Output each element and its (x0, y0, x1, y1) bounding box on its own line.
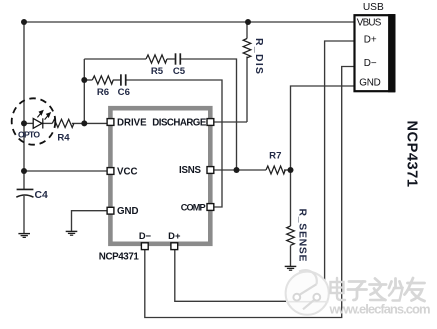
svg-text:D+: D+ (168, 230, 181, 241)
node R6 branch (81, 77, 87, 83)
wire VBUS top rail (24, 21, 354, 23)
wire R5C5 branch left (84, 58, 146, 60)
wire R6C6 branch left (84, 79, 92, 81)
svg-text:OPTO: OPTO (18, 130, 40, 140)
svg-text:D−: D− (364, 58, 377, 69)
node R7 R_SENSE junction (288, 167, 294, 173)
wire IC D- to USB D- (145, 67, 354, 318)
LED OPTO diode (33, 118, 43, 128)
node LED anode (21, 120, 27, 126)
pin ISNS (207, 167, 214, 174)
wire R6 to C6 (113, 79, 120, 81)
wire USB GND net (291, 86, 354, 170)
resistor R6 (92, 76, 113, 84)
svg-text:R6: R6 (97, 87, 109, 98)
svg-text:ISNS: ISNS (179, 165, 202, 176)
wire VCC row (24, 170, 107, 172)
USB right bar (388, 14, 395, 92)
pin VCC (107, 168, 114, 175)
capacitor C6 (121, 74, 126, 85)
svg-text:C6: C6 (118, 87, 130, 98)
pin DRIVE (107, 119, 114, 126)
svg-text:NCP4371: NCP4371 (404, 120, 420, 187)
svg-text:GND: GND (359, 78, 381, 89)
svg-text:R_SENSE: R_SENSE (297, 209, 308, 262)
resistor R7 (266, 166, 285, 174)
wire C4 to ground (23, 196, 25, 233)
wire IC D+ to USB D+ (175, 41, 354, 301)
wire ISNS to R7 (214, 169, 266, 171)
node top-left corner (21, 19, 27, 25)
capacitor C4 (16, 189, 33, 197)
wire left vertical rail (23, 22, 25, 189)
ground G1 (C4) (18, 234, 30, 238)
svg-text:GND: GND (117, 206, 139, 217)
svg-text:R_DIS: R_DIS (253, 38, 264, 74)
resistor R5 (146, 55, 167, 63)
svg-text:D−: D− (139, 230, 152, 241)
svg-text:NCP4371: NCP4371 (99, 252, 140, 263)
node R_DIS top (245, 19, 251, 25)
pin GND (107, 207, 114, 214)
wire feedback vertical x84 (83, 59, 85, 123)
resistor R_DIS (243, 39, 251, 58)
svg-text:D+: D+ (364, 35, 377, 46)
LED arrows (37, 111, 50, 120)
ground G3 (R_SENSE) (285, 266, 297, 270)
wire R5 to C5 (167, 58, 175, 60)
wire C5 to ISNS drop (181, 59, 237, 170)
pin D+ (171, 243, 178, 250)
svg-text:C4: C4 (35, 190, 49, 201)
pin COMP (207, 204, 214, 211)
wire R4 to DRIVE pin (72, 122, 107, 124)
wire LED cathode to R4 (43, 122, 53, 124)
node C5 to ISNS (234, 167, 240, 173)
svg-text:R4: R4 (57, 133, 70, 144)
node DRIVE / feedback (81, 120, 87, 126)
svg-text:VCC: VCC (117, 166, 137, 177)
svg-text:VBUS: VBUS (357, 17, 382, 28)
wire GND pin to ground (72, 211, 108, 231)
wire R_DIS top (246, 22, 248, 39)
opto dashed ellipse (12, 98, 56, 144)
resistor R4 (52, 119, 74, 127)
node VCC branch (21, 168, 27, 174)
wire LED anode (24, 122, 33, 124)
wire C6 to COMP (126, 80, 222, 207)
USB connector J1 (355, 15, 395, 91)
resistor R_SENSE (287, 226, 295, 245)
svg-text:R7: R7 (269, 151, 281, 162)
svg-text:DISCHARGE: DISCHARGE (152, 118, 207, 129)
wire R_SENSE to ground (290, 246, 292, 267)
svg-text:C5: C5 (173, 66, 186, 77)
capacitor C5 (176, 53, 181, 64)
watermark logo circle (286, 270, 329, 315)
wire R7 to sense node (284, 169, 291, 171)
svg-text:USB: USB (363, 2, 384, 13)
svg-text:R5: R5 (151, 66, 164, 77)
wire R_DIS bottom (246, 57, 248, 123)
wire sense node to R_SENSE (290, 170, 292, 226)
watermark text 电子发烧友 (331, 278, 425, 301)
svg-text:www.elecfans.com: www.elecfans.com (329, 302, 431, 317)
op IC U1 NCP4371 body (110, 108, 210, 244)
pin DISCHARGE (207, 119, 214, 126)
pin D- (141, 243, 148, 250)
svg-text:COMP: COMP (181, 202, 206, 212)
ground G2 (IC GND) (66, 231, 78, 235)
svg-text:DRIVE: DRIVE (117, 118, 147, 129)
wire DISCHARGE to R_DIS (214, 121, 247, 123)
